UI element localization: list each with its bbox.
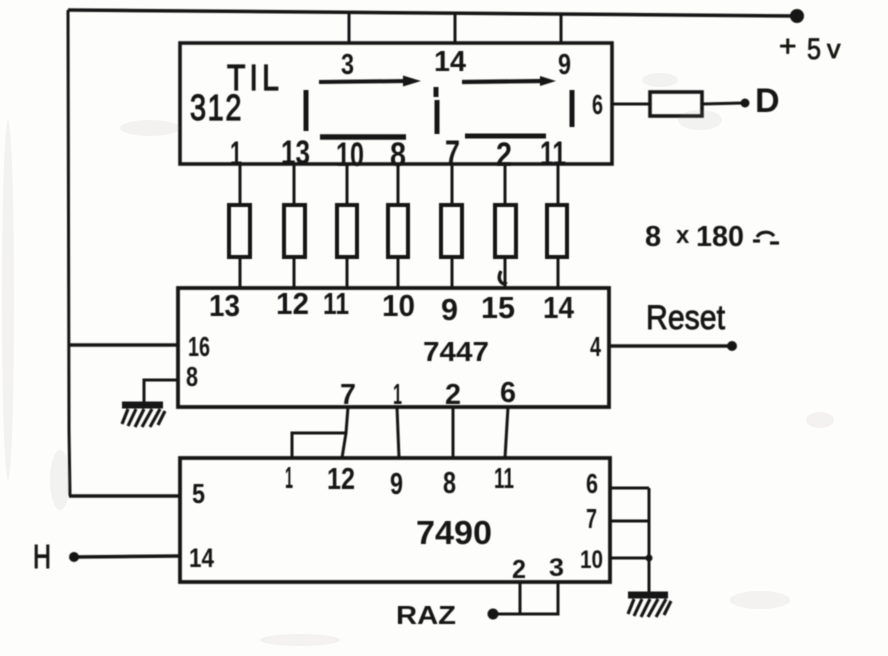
segment stroke bottom-right horizontal xyxy=(465,134,546,139)
resistor R8 (segment D, 180 ohm) xyxy=(650,92,702,116)
resistor R2 xyxy=(284,205,305,257)
segment stroke bottom-left horizontal xyxy=(320,134,406,140)
node D terminal dot xyxy=(741,99,750,108)
wire 7447 pin 4 to Reset terminal xyxy=(609,344,731,348)
svg-text:D: D xyxy=(755,82,780,120)
wire 7490 pin 6 to ground bus xyxy=(610,487,649,490)
svg-text:8: 8 xyxy=(645,221,661,253)
svg-text:16: 16 xyxy=(188,331,210,362)
wire resistor R5 to 7447 pin 9 xyxy=(451,257,454,289)
+5V supply rail wire xyxy=(68,10,797,16)
svg-text:3: 3 xyxy=(341,49,354,81)
svg-text:12: 12 xyxy=(327,461,355,496)
svg-text:9: 9 xyxy=(441,292,458,327)
wire resistor R3 to 7447 pin 11 xyxy=(346,257,349,289)
wire ground bus vertical xyxy=(648,488,651,593)
svg-text:8: 8 xyxy=(186,361,198,392)
wire resistor R8 to node D xyxy=(702,103,743,104)
svg-text:1: 1 xyxy=(285,460,293,495)
svg-text:v: v xyxy=(827,34,841,64)
svg-text:RAZ: RAZ xyxy=(396,600,456,630)
wire 7490 pin 3 to RAZ xyxy=(520,582,558,614)
svg-text:8: 8 xyxy=(443,465,456,500)
svg-text:4: 4 xyxy=(590,331,601,362)
resistor R5 xyxy=(441,205,462,257)
svg-text:1: 1 xyxy=(393,379,402,411)
svg-text:x: x xyxy=(676,222,690,249)
svg-text:7: 7 xyxy=(586,503,597,534)
RAZ terminal dot xyxy=(488,609,499,620)
svg-text:11: 11 xyxy=(494,463,514,495)
svg-text:3: 3 xyxy=(549,554,564,582)
wire rail to TIL312 pin 9 xyxy=(560,13,563,44)
wire TIL pin 2 to resistor R6 xyxy=(504,164,507,205)
resistor R6 xyxy=(495,205,516,257)
wire bus to 7490 pin 5 xyxy=(69,494,180,498)
svg-text:+: + xyxy=(779,30,797,63)
resistor R7 xyxy=(547,205,567,257)
wire TIL pin 13 to resistor R2 xyxy=(293,164,296,205)
display U1 TIL 312 body xyxy=(180,43,612,164)
svg-text:2: 2 xyxy=(512,554,526,584)
junction dot pin10/ground bus xyxy=(646,555,653,562)
decoder U2 7447 body xyxy=(178,288,609,407)
wire TIL pin 11 to resistor R7 xyxy=(557,164,560,205)
svg-text:14: 14 xyxy=(189,543,214,573)
svg-text:11: 11 xyxy=(323,286,349,321)
+5V rail terminal dot xyxy=(790,9,804,23)
svg-text:6: 6 xyxy=(592,89,603,120)
svg-text:12: 12 xyxy=(276,286,309,321)
wire resistor R6 to 7447 pin 15 with arrowhead xyxy=(499,257,506,289)
wire TIL pin 1 to resistor R1 xyxy=(239,164,242,205)
wire rail to TIL312 pin 3 xyxy=(348,11,351,44)
svg-text:14: 14 xyxy=(543,290,575,325)
svg-text:180: 180 xyxy=(696,221,744,253)
wire left vertical bus from +5V to 7490 pin 5 xyxy=(68,10,70,496)
svg-text:10: 10 xyxy=(336,136,364,174)
wire TIL pin 10 to resistor R3 xyxy=(346,164,349,205)
svg-text:9: 9 xyxy=(558,49,571,81)
svg-text:14: 14 xyxy=(434,46,466,78)
wire resistor R1 to 7447 pin 13 xyxy=(239,257,242,289)
wire 7490 pin 2 to RAZ xyxy=(495,582,520,614)
wire 7490 pin 7 to ground bus xyxy=(610,520,649,523)
wire 7447 pin 8 to ground xyxy=(144,380,178,404)
wire resistor R7 to 7447 pin 14 xyxy=(557,257,560,289)
svg-text:6: 6 xyxy=(500,377,516,409)
Reset terminal dot xyxy=(727,341,737,351)
wire rail to TIL312 pin 14 xyxy=(454,12,457,44)
svg-text:H: H xyxy=(33,538,51,575)
svg-text:5: 5 xyxy=(807,33,821,66)
wire 7447 pin 6 to 7490 pin 11 xyxy=(505,407,508,458)
wire 7490 pin 10 to ground bus xyxy=(610,557,649,560)
svg-text:15: 15 xyxy=(481,290,515,325)
wire resistor R4 to 7447 pin 10 xyxy=(397,257,400,289)
svg-text:Reset: Reset xyxy=(646,299,725,337)
wire 7447 pin 7 to 7490 pins 12 and 1 xyxy=(292,407,348,458)
svg-text:7447: 7447 xyxy=(423,336,489,367)
svg-text:10: 10 xyxy=(382,288,415,323)
counter U3 7490 body xyxy=(180,458,610,582)
wire resistor R2 to 7447 pin 12 xyxy=(293,257,296,289)
segment stroke middle vertical lower xyxy=(435,100,440,134)
svg-text:7490: 7490 xyxy=(416,514,492,551)
svg-text:312: 312 xyxy=(190,87,243,128)
resistor R1 xyxy=(229,205,250,257)
wire 7447 pin 1 to 7490 pin 9 xyxy=(397,407,399,458)
ground symbol (7490) xyxy=(628,595,671,617)
wire TIL pin 6 to resistor R8 xyxy=(612,103,650,106)
svg-text:11: 11 xyxy=(540,135,566,173)
wire TIL pin 7 to resistor R5 xyxy=(451,164,454,205)
segment stroke top-left horizontal arrow xyxy=(319,76,421,87)
wire TIL pin 8 to resistor R4 xyxy=(397,164,400,205)
segment stroke left vertical xyxy=(304,90,309,131)
svg-text:7: 7 xyxy=(340,379,356,411)
svg-text:13: 13 xyxy=(209,288,240,323)
resistor value label 8 x 180 ohm xyxy=(645,221,779,253)
wire bus to 7447 pin 16 xyxy=(69,343,178,347)
segment stroke right vertical xyxy=(570,90,575,127)
svg-text:5: 5 xyxy=(192,478,205,509)
resistor R4 xyxy=(388,205,408,257)
svg-text:6: 6 xyxy=(586,468,598,499)
ground symbol (7447 pin 8) xyxy=(122,405,165,427)
segment stroke top-right horizontal xyxy=(462,76,556,86)
H terminal dot xyxy=(69,552,79,562)
segment stroke middle vertical upper xyxy=(434,87,439,97)
svg-text:10: 10 xyxy=(580,546,603,574)
svg-text:9: 9 xyxy=(390,466,403,501)
resistor R3 xyxy=(337,205,357,257)
wire 7447 pin 2 to 7490 pin 8 xyxy=(452,407,455,458)
wire H terminal to 7490 pin 14 xyxy=(74,556,180,557)
svg-text:2: 2 xyxy=(445,379,461,411)
+5V label xyxy=(779,30,841,66)
